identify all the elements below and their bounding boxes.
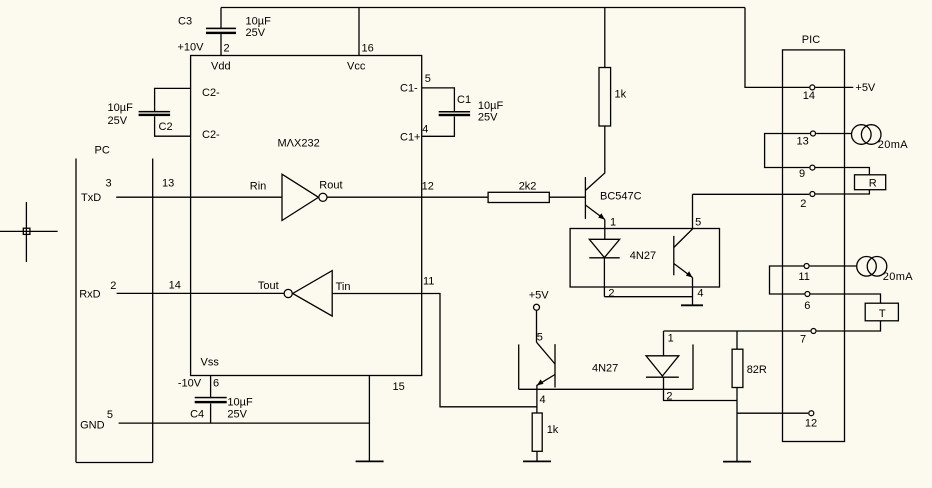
- optocoupler U3 right edge: [692, 344, 694, 389]
- svg-text:1k: 1k: [547, 424, 559, 436]
- svg-text:82R: 82R: [747, 364, 767, 376]
- opto1 phototransistor base bar: [673, 236, 675, 275]
- wire opto1 collector to PIC pin 2: [693, 193, 810, 195]
- inverter Tout: [293, 271, 333, 317]
- ground under pin15: [356, 460, 384, 462]
- capacitor C2: [139, 111, 171, 116]
- svg-text:25V: 25V: [246, 27, 266, 39]
- svg-text:PC: PC: [95, 145, 110, 157]
- svg-text:-10V: -10V: [178, 377, 202, 389]
- inverter Rin bubble: [319, 193, 327, 201]
- svg-text:10µF: 10µF: [478, 100, 504, 112]
- svg-text:5: 5: [425, 73, 431, 85]
- connector PC bottom edge: [76, 462, 153, 464]
- svg-text:C4: C4: [190, 409, 204, 421]
- svg-text:15: 15: [393, 381, 405, 393]
- pin 12 terminal: [809, 411, 814, 416]
- wire pin9 to R: [816, 168, 870, 175]
- svg-text:11: 11: [798, 271, 809, 283]
- inverter Rin: [282, 174, 319, 220]
- opto1 LED cathode bar: [589, 257, 619, 259]
- svg-text:C3: C3: [178, 15, 192, 27]
- transistor Q1 BC547C base bar: [584, 177, 586, 219]
- resistor 2k2: [488, 192, 549, 202]
- wire pin15 to ground: [368, 376, 370, 462]
- wire pin11-pin6 bracket: [770, 266, 805, 294]
- wire LED cathode to 82R bottom node: [664, 377, 738, 400]
- opto2 LED pin1 lead: [663, 331, 665, 356]
- svg-text:10µF: 10µF: [108, 102, 134, 114]
- opto2 LED triangle: [646, 356, 679, 376]
- wire pin6 to T: [811, 294, 881, 303]
- wire C1- lead: [422, 88, 455, 112]
- svg-text:3: 3: [106, 177, 112, 189]
- connector PIC body: [783, 50, 845, 442]
- svg-text:C1: C1: [457, 94, 471, 106]
- svg-text:Tout: Tout: [258, 280, 279, 292]
- svg-text:+10V: +10V: [178, 41, 205, 53]
- opto2 collector diagonal: [537, 342, 556, 364]
- svg-text:10µF: 10µF: [227, 396, 253, 408]
- IC U1 MAX232 body: [191, 56, 422, 376]
- svg-text:20mA: 20mA: [878, 139, 908, 151]
- optocoupler U3 4N27 left edge: [518, 344, 520, 389]
- wire Vss lead: [210, 376, 212, 398]
- current loop T 20mA: [857, 257, 887, 277]
- svg-text:4N27: 4N27: [630, 250, 656, 262]
- svg-text:Rin: Rin: [250, 181, 267, 193]
- svg-text:BC547C: BC547C: [600, 190, 642, 202]
- opto1 phototransistor emitter: [674, 264, 693, 278]
- svg-text:5: 5: [537, 332, 543, 344]
- svg-text:Rout: Rout: [319, 180, 342, 192]
- svg-text:MΛX232: MΛX232: [278, 137, 320, 149]
- wire 1k to ground: [536, 451, 538, 461]
- capacitor C1: [439, 111, 470, 116]
- wire GND: [119, 422, 370, 424]
- svg-text:2: 2: [224, 42, 230, 54]
- resistor 1k: [599, 68, 611, 127]
- pin 6 terminal: [805, 292, 810, 297]
- wire pin14 to +5V: [815, 86, 853, 88]
- terminal +5V opto2: [534, 304, 540, 310]
- svg-text:12: 12: [805, 418, 817, 430]
- capacitor C4: [195, 397, 227, 404]
- svg-text:C1-: C1-: [400, 83, 418, 95]
- inverter Tout bubble: [284, 289, 292, 297]
- wire pin13-pin9 bracket: [765, 134, 810, 168]
- opto2 bottom node wire: [519, 388, 693, 390]
- svg-text:5: 5: [695, 217, 701, 229]
- wire R to pin2: [816, 190, 870, 194]
- svg-text:1: 1: [610, 217, 616, 229]
- wire emitter to ground: [692, 278, 694, 306]
- svg-text:9: 9: [799, 168, 805, 180]
- wire C3 top lead: [220, 8, 222, 29]
- svg-text:5: 5: [107, 409, 113, 421]
- svg-text:4: 4: [540, 394, 546, 406]
- svg-text:Vss: Vss: [201, 356, 220, 368]
- svg-text:4: 4: [697, 287, 703, 299]
- svg-text:T: T: [879, 308, 886, 320]
- wire 2k2 to base: [549, 196, 585, 198]
- svg-text:2: 2: [666, 390, 672, 402]
- wire 82R to ground: [736, 388, 738, 462]
- svg-text:C2: C2: [159, 121, 173, 133]
- svg-text:16: 16: [362, 42, 374, 54]
- wire Rout: [327, 196, 488, 198]
- svg-text:2k2: 2k2: [519, 181, 537, 193]
- wire Tin to opto2 node: [332, 294, 537, 407]
- pin 13 terminal: [811, 131, 816, 136]
- svg-text:14: 14: [803, 90, 815, 102]
- svg-text:+5V: +5V: [529, 290, 550, 302]
- wire pin11 to 20mA loop: [810, 265, 857, 267]
- svg-text:1k: 1k: [615, 88, 627, 100]
- optocoupler U2 4N27 body: [570, 229, 719, 288]
- svg-text:Vcc: Vcc: [347, 60, 366, 72]
- svg-text:20mA: 20mA: [883, 271, 913, 283]
- svg-text:14: 14: [169, 279, 181, 291]
- svg-text:2: 2: [800, 198, 806, 210]
- wire Q1 emitter to opto1 pin 1: [604, 220, 606, 240]
- svg-text:25V: 25V: [478, 111, 498, 123]
- wire +10V top rail: [221, 7, 745, 9]
- svg-text:2: 2: [110, 280, 116, 292]
- opto2 LED cathode bar: [646, 376, 679, 378]
- opto1 phototransistor collector: [674, 194, 693, 247]
- connector PC right edge: [152, 159, 154, 463]
- svg-text:+5V: +5V: [855, 82, 876, 94]
- svg-text:GND: GND: [80, 420, 105, 432]
- wire C3 bottom lead: [220, 34, 222, 55]
- transistor Q1 emitter arrow: [598, 213, 605, 219]
- ground under 82R: [723, 461, 751, 463]
- resistor 82R: [732, 349, 743, 387]
- svg-text:13: 13: [162, 177, 174, 189]
- connector PC left edge: [75, 159, 77, 463]
- origin marker vertical: [25, 202, 27, 262]
- wire C2- upper lead: [155, 88, 191, 111]
- wire Vcc top lead: [358, 8, 360, 56]
- opto2 emitter arrow: [537, 379, 544, 385]
- opto2 node vertical: [536, 389, 538, 413]
- svg-text:Tin: Tin: [336, 281, 351, 293]
- svg-text:13: 13: [797, 136, 809, 148]
- wire T to pin7: [817, 321, 881, 331]
- svg-text:25V: 25V: [227, 409, 247, 421]
- ground under 1k: [523, 460, 551, 462]
- svg-text:R: R: [869, 178, 877, 190]
- svg-text:RxD: RxD: [79, 289, 100, 301]
- opto1 emitter arrow: [686, 271, 693, 277]
- wire pin12 to 82R bottom: [737, 412, 808, 414]
- wire pin13 to 20mA loop: [816, 133, 852, 135]
- wire TxD: [116, 196, 282, 198]
- svg-text:TxD: TxD: [81, 192, 101, 204]
- svg-text:PIC: PIC: [802, 34, 820, 46]
- svg-text:C1+: C1+: [400, 131, 421, 143]
- wire top rail to 1k: [604, 8, 606, 68]
- svg-text:4: 4: [422, 124, 428, 136]
- pin 2 terminal: [810, 192, 815, 197]
- svg-text:C2-: C2-: [202, 129, 220, 141]
- svg-text:4N27: 4N27: [592, 363, 618, 375]
- current loop R 20mA: [852, 125, 882, 145]
- wire +5V feed from top rail: [745, 8, 809, 88]
- opto2 phototransistor base bar: [554, 344, 556, 387]
- wire C4 to GND row: [210, 404, 212, 424]
- device R box: [855, 175, 886, 190]
- origin marker horizontal: [0, 230, 58, 232]
- svg-text:1: 1: [668, 333, 674, 345]
- svg-text:Vdd: Vdd: [211, 60, 231, 72]
- wire +5V to opto2 collector: [536, 311, 538, 343]
- pin 7 terminal: [811, 329, 816, 334]
- wire LED cathode to pin 2: [603, 258, 605, 297]
- svg-text:6: 6: [804, 300, 810, 312]
- svg-text:12: 12: [422, 181, 434, 193]
- svg-text:10µF: 10µF: [246, 15, 272, 27]
- device T box: [865, 303, 898, 321]
- transistor Q1 collector: [585, 126, 604, 191]
- ground opto1: [681, 304, 703, 306]
- resistor 1k bottom: [532, 413, 542, 451]
- svg-text:2: 2: [608, 287, 614, 299]
- svg-text:11: 11: [423, 276, 434, 288]
- capacitor C3: [206, 28, 236, 35]
- svg-text:7: 7: [800, 334, 806, 346]
- wire pin2 to pin4 node: [604, 296, 692, 298]
- opto1 LED triangle: [589, 239, 619, 257]
- svg-text:C2-: C2-: [202, 87, 220, 99]
- wire C2- lower lead: [155, 116, 191, 136]
- wire RxD: [117, 292, 284, 294]
- origin marker box: [23, 228, 30, 234]
- svg-text:25V: 25V: [108, 115, 128, 127]
- wire C1+ lead: [422, 116, 455, 136]
- pin 14 terminal: [810, 85, 815, 90]
- opto2 emitter diagonal: [537, 375, 555, 390]
- wire pin7 node to 82R: [736, 331, 738, 349]
- pin 11 terminal: [804, 264, 809, 269]
- svg-text:6: 6: [213, 377, 219, 389]
- pin 9 terminal: [810, 165, 815, 170]
- wire pin7 to opto2 LED anode: [664, 330, 811, 332]
- transistor Q1 emitter: [585, 205, 604, 220]
